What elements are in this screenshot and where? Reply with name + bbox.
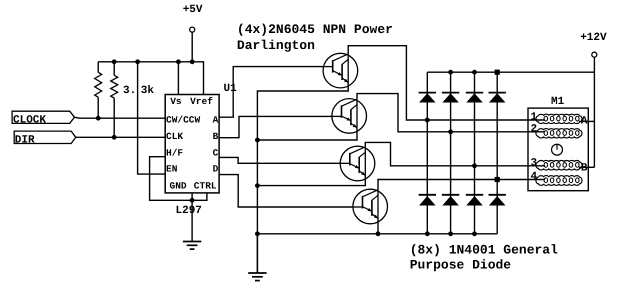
svg-text:L297: L297 [176, 205, 202, 217]
svg-text:3.: 3. [123, 85, 136, 97]
svg-text:A: A [213, 115, 219, 126]
svg-text:3k: 3k [141, 85, 155, 97]
svg-text:A: A [581, 116, 588, 128]
svg-text:(4x)2N6045 NPN Power: (4x)2N6045 NPN Power [237, 22, 393, 37]
svg-text:CLOCK: CLOCK [13, 114, 46, 126]
svg-text:1: 1 [531, 112, 538, 124]
svg-text:U1: U1 [224, 83, 238, 95]
svg-text:D: D [213, 164, 219, 175]
svg-text:C: C [213, 147, 219, 158]
svg-text:EN: EN [166, 164, 178, 175]
svg-text:+12V: +12V [580, 32, 607, 44]
svg-text:Darlington: Darlington [237, 38, 315, 53]
svg-text:Purpose Diode: Purpose Diode [410, 257, 512, 272]
svg-text:H/F: H/F [166, 147, 183, 158]
svg-text:CW/CCW: CW/CCW [166, 115, 201, 126]
svg-text:B: B [581, 163, 588, 175]
svg-text:4: 4 [531, 171, 538, 183]
svg-text:+5V: +5V [183, 4, 203, 16]
svg-text:CLK: CLK [166, 131, 183, 142]
svg-text:(8x) 1N4001 General: (8x) 1N4001 General [410, 243, 558, 258]
svg-text:CTRL: CTRL [194, 181, 217, 192]
svg-text:3: 3 [531, 157, 538, 169]
svg-text:B: B [213, 131, 219, 142]
svg-text:M1: M1 [551, 96, 565, 108]
svg-text:2: 2 [531, 123, 538, 135]
svg-text:DIR: DIR [15, 135, 35, 147]
svg-text:GND: GND [170, 181, 187, 192]
svg-text:Vref: Vref [190, 96, 213, 107]
svg-text:Vs: Vs [170, 96, 182, 107]
